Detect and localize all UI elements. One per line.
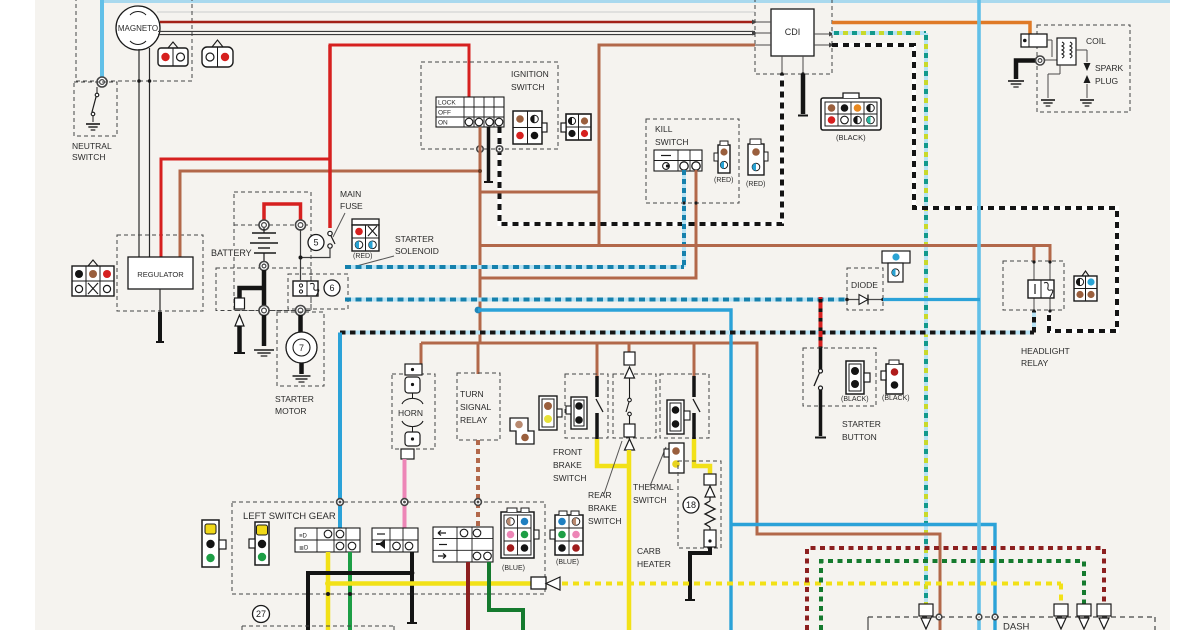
horn switch table xyxy=(372,528,418,552)
ground spark plug xyxy=(1080,99,1094,101)
regulator dashed box xyxy=(117,235,203,311)
svg-text:CARB: CARB xyxy=(637,546,661,556)
neutral switch dashed box xyxy=(74,82,117,136)
wire black starter motor ground lead xyxy=(299,363,304,374)
svg-text:THERMAL: THERMAL xyxy=(633,482,674,492)
circle label 6 xyxy=(324,280,340,296)
junction ring battery plus xyxy=(259,220,269,230)
svg-text:COIL: COIL xyxy=(1086,36,1106,46)
wire lightblue trunk xyxy=(977,0,981,630)
wire brown bus to headlight relay xyxy=(480,244,1052,247)
dash lamp connector teal xyxy=(919,604,933,616)
svg-text:5: 5 xyxy=(313,238,318,248)
svg-text:ON: ON xyxy=(438,120,448,127)
diode dashed box xyxy=(847,268,883,310)
wire thin battery-plus to solenoid xyxy=(300,229,302,280)
wire blue solid headlamp feed xyxy=(478,310,731,630)
junction marks on box bottom xyxy=(326,592,330,596)
wire brown accessory bus xyxy=(421,342,759,345)
wire brown drop rear brake switch xyxy=(628,343,631,362)
cdi bottom leads xyxy=(781,56,783,74)
front brake switch SW2 xyxy=(596,376,603,439)
wire pink horn to switch xyxy=(403,459,407,528)
diode D1 xyxy=(845,295,885,305)
wire brown regulator branch xyxy=(180,171,480,257)
wire brown drop turn signal relay xyxy=(477,343,480,374)
svg-text:HEATER: HEATER xyxy=(637,559,671,569)
rear brake arrow top xyxy=(625,367,635,378)
wire green dashed dash-lamp loop xyxy=(821,561,1084,630)
ignition switch dashed box xyxy=(421,62,558,149)
turn signal switch table xyxy=(433,527,493,562)
starter button dashed box xyxy=(803,348,876,406)
connector 6-pin blue near xyxy=(501,508,539,558)
svg-text:STARTER: STARTER xyxy=(842,419,881,429)
rear brake switch SW3 xyxy=(626,378,631,424)
wire blue solid branch to dash xyxy=(731,525,995,630)
svg-text:(BLACK): (BLACK) xyxy=(882,395,910,402)
thermal switch SW4 xyxy=(693,376,700,439)
svg-text:FRONT: FRONT xyxy=(553,447,582,457)
ground coil primary xyxy=(1008,80,1024,82)
ignition coil T1 xyxy=(1057,38,1076,65)
connector step pair xyxy=(510,418,534,444)
junction ring blue wire to neutral switch xyxy=(97,77,107,87)
wire red-black starter button feed xyxy=(819,297,823,348)
svg-text:HEADLIGHT: HEADLIGHT xyxy=(1021,346,1070,356)
wire black-white dashed CDI to headlight relay xyxy=(832,45,1117,331)
wire brown drop horn xyxy=(420,343,423,367)
wire white (double line) magneto to CDI xyxy=(158,31,755,34)
thermal switch dashed box xyxy=(660,374,709,438)
connector headlight relay 4-pin xyxy=(1074,271,1097,301)
svg-text:(BLACK): (BLACK) xyxy=(841,396,869,403)
junction ring solenoid output at border xyxy=(296,306,306,316)
cdi input leads xyxy=(752,20,771,46)
svg-text:FUSE: FUSE xyxy=(340,201,363,211)
front brake switch dashed box xyxy=(565,374,608,438)
junction dot solid blue start xyxy=(475,307,482,314)
ground battery negative xyxy=(254,349,274,351)
coil secondary leads xyxy=(1059,65,1061,74)
svg-text:SWITCH: SWITCH xyxy=(553,473,587,483)
starter solenoid dashed box xyxy=(288,274,348,309)
svg-text:18: 18 xyxy=(686,500,696,510)
junction brown tee upper xyxy=(478,169,482,173)
wire darkred dashed dash-lamp loop xyxy=(807,548,1104,630)
svg-text:BUTTON: BUTTON xyxy=(842,432,877,442)
connector front brake 2-pin xyxy=(566,397,587,429)
wire black-white dashed ignition to CDI xyxy=(500,74,783,224)
spark plug gap arrows xyxy=(1084,63,1091,71)
wire blue solid diode to trunk xyxy=(883,298,980,301)
svg-text:RELAY: RELAY xyxy=(1021,358,1049,368)
wire black regulator ground lead xyxy=(156,289,164,342)
connector main fuse 2x2 red xyxy=(352,219,379,251)
rear brake connector bottom xyxy=(624,424,635,437)
regulator U1 xyxy=(128,257,193,289)
connector magneto 2-pin B xyxy=(202,40,233,67)
connector brown-yellow 2-pin mid xyxy=(539,396,562,430)
neutral switch NS xyxy=(86,87,100,130)
svg-text:STARTER: STARTER xyxy=(275,394,314,404)
wire black battery negative xyxy=(262,270,267,307)
connector 3-pin mid left xyxy=(249,522,269,565)
wire blue dashed solenoid to diode xyxy=(345,298,846,302)
horn H1 xyxy=(402,377,423,446)
rear brake arrow bottom xyxy=(625,439,635,450)
svg-text:SWITCH: SWITCH xyxy=(588,516,622,526)
svg-text:(BLUE): (BLUE) xyxy=(502,565,525,572)
magneto dashed enclosure xyxy=(76,0,192,81)
wire black coil ground xyxy=(1016,61,1036,80)
headlight relay leads xyxy=(1033,262,1035,280)
svg-text:(RED): (RED) xyxy=(353,253,372,260)
junction marks kill box bottom xyxy=(682,201,697,204)
junction dot solenoid feed xyxy=(299,256,303,260)
coil dashed box xyxy=(1037,25,1130,112)
wire thin coil connector to coil xyxy=(1047,39,1052,41)
junction rings on box top xyxy=(337,499,344,506)
junction rings dash border xyxy=(936,614,942,620)
svg-text:(BLACK): (BLACK) xyxy=(836,133,866,142)
svg-text:SWITCH: SWITCH xyxy=(72,152,106,162)
battery minus branch dashed box xyxy=(216,268,311,311)
connector kill 2-pin red A xyxy=(714,141,730,173)
fusible link arrow xyxy=(235,315,244,326)
wire brown-white dashed flasher drop xyxy=(476,440,480,527)
connector diode 2-pin xyxy=(882,251,910,282)
svg-text:MAGNETO: MAGNETO xyxy=(118,24,158,33)
dash lamp teal arrow xyxy=(921,618,931,629)
wire brown ignition main drop xyxy=(479,127,482,343)
svg-text:(RED): (RED) xyxy=(746,181,765,188)
junction ring battery minus at border xyxy=(259,306,269,316)
wire black carb heater tail xyxy=(685,547,710,600)
ground coil secondary left xyxy=(1041,99,1055,101)
label horn xyxy=(396,408,429,418)
wire black pair magneto down to regulator xyxy=(139,48,150,257)
junction marks magneto box bottom xyxy=(137,79,151,83)
starter solenoid K1 xyxy=(293,281,319,296)
wire black fusible-link branch xyxy=(240,288,265,298)
connector 6-pin blue far xyxy=(550,511,583,555)
wire black battery to frame ground xyxy=(262,315,267,346)
svg-text:SIGNAL: SIGNAL xyxy=(460,402,491,412)
connector yellow bus lug xyxy=(531,577,546,589)
annotation line main fuse xyxy=(333,213,345,237)
svg-text:27: 27 xyxy=(256,609,266,619)
wire red main fuse feed xyxy=(328,45,332,228)
svg-text:SOLENOID: SOLENOID xyxy=(395,246,439,256)
svg-text:KILL: KILL xyxy=(655,124,673,134)
dash lamp connector green xyxy=(1077,604,1091,616)
wire green-yellow dashed CDI to dash lamp xyxy=(832,31,926,35)
wire brown to dash xyxy=(757,343,940,630)
starter motor dashed box xyxy=(277,312,324,386)
dash lamp darkred arrow xyxy=(1099,618,1109,629)
wire maroon turn left xyxy=(466,562,470,630)
svg-text:SWITCH: SWITCH xyxy=(633,495,667,505)
dash lamp yellow arrow xyxy=(1056,618,1066,629)
wire black horn branch xyxy=(308,573,412,630)
junction ring battery minus xyxy=(260,262,269,271)
wire yellow rear brake trunk xyxy=(627,450,632,630)
svg-text:7: 7 xyxy=(299,343,304,353)
magneto M1 xyxy=(116,6,160,50)
connector 3-pin far left xyxy=(202,520,226,567)
wire lightblue top edge xyxy=(102,0,1170,3)
svg-text:6: 6 xyxy=(329,283,334,293)
wire green turn right xyxy=(489,562,523,630)
svg-text:BATTERY: BATTERY xyxy=(211,248,252,258)
cdi unit U2 xyxy=(771,9,814,56)
wire orange CDI to coil xyxy=(832,23,1030,35)
dash lamp green arrow xyxy=(1079,618,1089,629)
connector horn bottom xyxy=(401,449,414,459)
wire brown ignition to CDI xyxy=(599,45,755,246)
wire yellow headlight low xyxy=(326,552,331,630)
svg-text:BRAKE: BRAKE xyxy=(553,460,582,470)
svg-text:BRAKE: BRAKE xyxy=(588,503,617,513)
svg-text:(RED): (RED) xyxy=(714,177,733,184)
label battery xyxy=(208,246,254,258)
starter button SW1 xyxy=(814,348,826,438)
wire yellow dashed to dash xyxy=(562,582,1061,586)
svg-text:PLUG: PLUG xyxy=(1095,76,1118,86)
wire thin fuse to solenoid junction xyxy=(301,248,331,258)
svg-text:RELAY: RELAY xyxy=(460,415,488,425)
svg-text:MOTOR: MOTOR xyxy=(275,406,306,416)
connector thermal 2-pin xyxy=(667,400,690,434)
svg-text:SWITCH: SWITCH xyxy=(511,82,545,92)
svg-text:DIODE: DIODE xyxy=(851,280,878,290)
connector magneto 2-pin A xyxy=(158,42,188,66)
wire brown cross link xyxy=(480,191,599,194)
svg-text:SPARK: SPARK xyxy=(1095,63,1124,73)
connector horn top xyxy=(405,364,422,375)
wire blue solid to left switch gear xyxy=(338,333,342,529)
wire green headlight high xyxy=(348,552,352,630)
connector regulator 6-pin xyxy=(72,260,114,296)
carb heater arrow xyxy=(705,486,715,497)
wire blue dashed kill switch drop xyxy=(682,170,686,267)
starter motor M2 xyxy=(286,332,317,363)
wire yellow thermal to carb heater xyxy=(694,439,710,474)
carb heater connector top xyxy=(704,474,716,485)
horn dashed box xyxy=(392,374,435,449)
wire yellow flasher bus solid xyxy=(328,581,531,586)
wire blue neutral-switch feed (sky) xyxy=(100,0,104,79)
arrow yellow bus xyxy=(546,577,560,590)
wire black solenoid to starter motor xyxy=(298,315,303,333)
wire red magneto to CDI xyxy=(160,21,755,24)
svg-text:(BLUE): (BLUE) xyxy=(556,559,579,566)
dash panel dashed box xyxy=(868,616,1155,618)
junction rings ignition box bottom xyxy=(477,146,483,152)
headlight dimmer switch table xyxy=(295,528,360,552)
wire black horn switch xyxy=(407,552,417,623)
junction yellow cross xyxy=(325,581,331,587)
svg-text:TURN: TURN xyxy=(460,389,484,399)
svg-text:IGNITION: IGNITION xyxy=(511,69,549,79)
wire yellow front brake xyxy=(597,439,629,466)
svg-text:MAIN: MAIN xyxy=(340,189,361,199)
wire black fusible-link tail xyxy=(234,326,245,353)
carb heater connector bottom xyxy=(704,530,716,547)
cdi output leads xyxy=(814,33,832,35)
circle label 5 xyxy=(308,235,324,251)
connector 8-pin black xyxy=(821,93,881,130)
connector kill 2-pin red B xyxy=(748,139,768,175)
wire brown drop thermal switch xyxy=(693,343,696,376)
svg-text:REAR: REAR xyxy=(588,490,612,500)
svg-text:CDI: CDI xyxy=(785,27,801,37)
left switch gear dashed box xyxy=(232,502,545,594)
main fuse F1 xyxy=(328,231,335,248)
svg-text:OFF: OFF xyxy=(438,110,451,117)
wire blue dashed solenoid to kill switch xyxy=(345,265,684,269)
kill switch table xyxy=(654,150,702,171)
svg-text:LEFT SWITCH GEAR: LEFT SWITCH GEAR xyxy=(243,511,336,522)
connector ignition 4-pin near xyxy=(513,111,547,144)
svg-text:LOCK: LOCK xyxy=(438,100,456,107)
svg-text:REGULATOR: REGULATOR xyxy=(137,270,184,279)
svg-text:SWITCH: SWITCH xyxy=(655,137,689,147)
junction dot horn branch xyxy=(410,571,415,576)
wire black cdi stub xyxy=(798,74,808,116)
battery dashed box xyxy=(234,192,311,311)
ignition switch table xyxy=(436,97,504,127)
wire brown relay stubs xyxy=(1033,246,1036,263)
junction ring coil input xyxy=(1036,56,1045,65)
rear brake connector top xyxy=(624,352,635,365)
svg-text:≡D: ≡D xyxy=(299,534,308,540)
circle label 27 xyxy=(253,606,270,623)
annotation line thermal switch xyxy=(650,447,666,486)
connector ignition 4-pin far xyxy=(561,114,591,140)
wire red battery jumper arch xyxy=(264,204,301,221)
svg-text:STARTER: STARTER xyxy=(395,234,434,244)
connector starter 2-pin B xyxy=(881,360,903,394)
dash lamp connector yellow xyxy=(1054,604,1068,616)
fusible link body xyxy=(235,298,245,309)
cdi dashed box xyxy=(755,0,832,74)
wire brown kill switch drop xyxy=(480,170,696,278)
junction ring battery jumper right xyxy=(296,220,306,230)
connector coil primary xyxy=(1021,34,1047,47)
kill switch dashed box xyxy=(646,119,739,203)
faint harness line top xyxy=(157,11,755,13)
wire black ignition kill lead xyxy=(484,127,493,182)
connector thermal below xyxy=(664,443,684,473)
carb heater dashed box xyxy=(678,461,721,548)
rear brake switch dashed box xyxy=(613,374,656,438)
turn signal relay dashed box xyxy=(457,373,500,440)
svg-text:HORN: HORN xyxy=(398,408,423,418)
lower dashed box xyxy=(242,625,394,627)
battery B1 plates xyxy=(250,228,278,262)
headlight relay dashed box xyxy=(1003,261,1064,310)
annotation line starter solenoid xyxy=(349,256,394,268)
svg-text:DASH: DASH xyxy=(1003,622,1030,630)
wire red main to ignition switch xyxy=(330,45,469,98)
ground starter motor xyxy=(293,375,311,377)
circle label 18 xyxy=(683,497,699,513)
wire red regulator branch xyxy=(161,159,330,257)
headlight relay K2 xyxy=(1028,280,1054,298)
connector starter 2-pin A xyxy=(846,361,870,394)
svg-text:NEUTRAL: NEUTRAL xyxy=(72,141,112,151)
dash lamp connector darkred xyxy=(1097,604,1111,616)
annotation line rear brake xyxy=(604,441,622,494)
wire blue-black dashed main bus xyxy=(340,311,1034,333)
carb heater resistor R1 xyxy=(705,497,715,530)
wire brown drop front brake switch xyxy=(596,343,599,376)
battery inner dashed line xyxy=(234,224,311,226)
